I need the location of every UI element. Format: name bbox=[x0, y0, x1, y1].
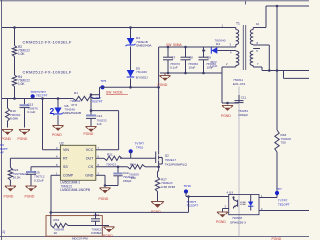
wire: opto pin 3 to ground bbox=[223, 209, 229, 213]
test point TP14 label bbox=[184, 184, 192, 188]
resistor R21 labels bbox=[106, 153, 117, 167]
svg-text:R24: R24 bbox=[130, 162, 136, 166]
svg-text:10uF: 10uF bbox=[189, 66, 196, 70]
sheet number text bottom left bbox=[1, 230, 6, 234]
resistor R21 bbox=[104, 156, 122, 160]
svg-text:0.068uF: 0.068uF bbox=[91, 231, 102, 235]
wire: output return branch bbox=[284, 71, 310, 79]
svg-text:TE1OPT: TE1OPT bbox=[278, 202, 290, 206]
wire: C22 to ground return bbox=[105, 185, 118, 187]
transformer T1 primary winding upper bbox=[236, 30, 239, 45]
resistor R24 bbox=[128, 165, 146, 169]
svg-text:1.0K: 1.0K bbox=[18, 52, 25, 56]
svg-text:CS: CS bbox=[88, 165, 94, 169]
net label XW_50MA red bbox=[166, 43, 183, 47]
resistor R4 part label CRM2512-FX-1003ELF bbox=[23, 69, 72, 74]
wire: VIN pin connection vertical bbox=[43, 99, 61, 150]
ground PGND under C7 bbox=[160, 73, 171, 81]
transformer T1 pin 10 stub bbox=[253, 28, 266, 30]
zener diode D4 bbox=[126, 38, 136, 46]
svg-text:2: 2 bbox=[50, 106, 55, 116]
transformer T1 pin 7 number bbox=[257, 62, 259, 66]
resistor R24 labels bbox=[129, 162, 140, 180]
node: junction aux rail / C7 bbox=[167, 46, 170, 49]
svg-text:C34: C34 bbox=[94, 213, 100, 217]
transformer T1 pin 3 stub bbox=[231, 45, 236, 48]
ground PGND right of C34 bbox=[104, 227, 115, 232]
resistor R19 bbox=[6, 99, 10, 128]
wire: SW node stub to C14 bbox=[90, 93, 100, 96]
wire: between R2 and R4 bbox=[14, 57, 16, 76]
optocoupler U3 coupling arrows bbox=[240, 201, 245, 205]
ground PGND under opto pin 3 bbox=[217, 212, 228, 217]
wire: VIN node horizontal bbox=[2, 98, 73, 100]
svg-text:LM5021MM-1/NOPB: LM5021MM-1/NOPB bbox=[60, 188, 90, 192]
svg-text:78G040: 78G040 bbox=[136, 70, 147, 74]
wire: primary return jog bbox=[221, 67, 239, 103]
capacitor C14 labels bbox=[97, 114, 107, 126]
sheet border bottom bbox=[0, 235, 309, 237]
highlight box around R31 C34 bbox=[46, 216, 102, 237]
svg-text:PGND: PGND bbox=[99, 197, 109, 201]
test point TP14 net text bbox=[187, 200, 199, 208]
test point TP10 labels bbox=[135, 142, 145, 150]
transistor Q2 labels bbox=[165, 154, 188, 167]
transformer T1 pin 8 number bbox=[257, 41, 259, 45]
svg-text:RT: RT bbox=[63, 157, 69, 161]
svg-text:C9: C9 bbox=[207, 55, 211, 59]
svg-text:10: 10 bbox=[256, 22, 260, 26]
capacitor C11 labels bbox=[238, 95, 248, 117]
svg-text:VIN: VIN bbox=[63, 148, 69, 152]
svg-text:EXL-474: EXL-474 bbox=[233, 82, 245, 86]
wire: aux rail (snubber top) bbox=[159, 46, 231, 48]
wire: SS pin to C25 bbox=[31, 166, 60, 168]
node: junction VIN node / D6 zener bbox=[57, 97, 60, 100]
wire: VCC pin wire bbox=[96, 149, 119, 151]
wire: opto feed vertical lower bbox=[276, 71, 278, 131]
capacitor C25 bbox=[26, 167, 36, 186]
svg-text:0.68 OHM: 0.68 OHM bbox=[161, 185, 176, 189]
wire: GND pin to ground bbox=[96, 175, 105, 185]
wire: switch node horizontal bbox=[100, 86, 159, 88]
net label SW_NODE red bbox=[106, 91, 128, 95]
capacitor C34 bbox=[91, 212, 100, 225]
resistor R19 labels bbox=[10, 109, 21, 120]
svg-text:D4: D4 bbox=[216, 42, 220, 46]
svg-text:SS: SS bbox=[63, 165, 68, 169]
test point net text TVTPT TE5TPT bbox=[92, 96, 103, 104]
ground PGND text under C25 bbox=[25, 194, 35, 198]
svg-text:R1: R1 bbox=[74, 91, 78, 95]
svg-text:TP16: TP16 bbox=[184, 184, 192, 188]
net label stub at left edge bbox=[0, 143, 8, 154]
U2 part labels bbox=[60, 181, 90, 192]
node: junction bottom rail / pin8 drop bbox=[268, 69, 271, 72]
transformer T1 pin 10 number bbox=[256, 22, 260, 26]
capacitor C7 bbox=[163, 47, 173, 73]
node: junction top rail / clamp diodes bbox=[129, 26, 132, 29]
capacitor C10 labels near pin 2 bbox=[210, 60, 218, 68]
svg-text:VCC: VCC bbox=[86, 148, 94, 152]
svg-text:PGND: PGND bbox=[103, 234, 113, 238]
wire: Y-cap line down to secondary side bbox=[238, 103, 240, 236]
transformer T1 pin 8 stub bbox=[253, 44, 269, 47]
sheet border left bbox=[1, 0, 3, 240]
wire: clamp chain vertical from top rail bbox=[130, 28, 132, 39]
svg-text:100: 100 bbox=[131, 176, 136, 180]
svg-text:OUT: OUT bbox=[86, 157, 94, 161]
resistor R18 labels bbox=[281, 133, 292, 144]
wire: R31 branch down bbox=[50, 212, 52, 225]
wire: between D4 and D5 bbox=[130, 47, 132, 71]
transformer T1 pin 1 number bbox=[222, 23, 224, 27]
svg-text:C8: C8 bbox=[189, 55, 193, 59]
svg-text:TP7: TP7 bbox=[276, 187, 282, 191]
svg-text:790508: 790508 bbox=[232, 216, 242, 220]
wire: secondary pin10 riser to output+ bbox=[266, 6, 309, 28]
transformer T1 pin 2 number bbox=[226, 62, 228, 66]
svg-text:R21: R21 bbox=[107, 153, 113, 157]
svg-text:PGND: PGND bbox=[221, 114, 231, 118]
wire: opto pin 1 to TP7 rail bbox=[259, 197, 277, 199]
wire: COMP pin down to feedback network bbox=[51, 175, 60, 212]
svg-text:T1: T1 bbox=[236, 22, 240, 26]
resistor R1 labels bbox=[70, 91, 81, 107]
transformer T1 pin 5 stub bbox=[253, 48, 260, 50]
resistor R1 (47.5) bbox=[73, 96, 93, 100]
transformer T1 core bbox=[243, 25, 245, 70]
ground PGND text on primary return bbox=[221, 114, 231, 118]
test point TP5 bbox=[100, 85, 104, 89]
svg-text:790421: 790421 bbox=[106, 162, 117, 166]
capacitor C8 labels bbox=[188, 55, 198, 69]
capacitor C8 bbox=[181, 47, 191, 73]
wire: R18 to TP7 bbox=[276, 152, 278, 198]
resistor R31 labels bbox=[54, 218, 65, 235]
svg-text:PGND: PGND bbox=[18, 137, 28, 141]
svg-text:SFH6156-3: SFH6156-3 bbox=[230, 221, 246, 225]
wire: D5 to switch-node wire bbox=[130, 79, 132, 88]
ground PGND under C13 bbox=[19, 130, 30, 135]
ground PGND under R23 bbox=[5, 186, 16, 191]
ground PGND text under C7 bbox=[158, 83, 168, 87]
node: junction C9 stem / D4 wire bbox=[202, 49, 205, 52]
node: junction output+ rail / opto feed bbox=[276, 5, 279, 8]
svg-text:COMP: COMP bbox=[63, 174, 74, 178]
svg-text:0.1uF: 0.1uF bbox=[170, 66, 178, 70]
capacitor C7 labels bbox=[170, 55, 180, 69]
resistor R23 labels bbox=[13, 168, 29, 179]
svg-text:TP10: TP10 bbox=[136, 145, 144, 149]
svg-text:4F: 4F bbox=[0, 150, 4, 154]
wire: R31 to C34/PGND rail bbox=[68, 225, 109, 227]
capacitor C22 bbox=[113, 167, 122, 186]
svg-text:CRM2512-FX-1003ELF: CRM2512-FX-1003ELF bbox=[23, 39, 72, 44]
svg-text:SW_NODE: SW_NODE bbox=[106, 91, 123, 95]
wire: cap bank bottom rail bbox=[160, 72, 221, 74]
ground PGND on primary return bbox=[222, 106, 233, 111]
resistor R4 labels bbox=[18, 75, 30, 86]
transformer T1 pin 4 number bbox=[230, 51, 232, 55]
wire: R24 to source node bbox=[145, 166, 159, 168]
sheet border zone tick bbox=[245, 1, 247, 5]
wire: feedback riser from COMP long wire bbox=[188, 197, 190, 213]
wire: HV input rail (top) bbox=[2, 27, 234, 29]
capacitor C22 labels bbox=[123, 171, 135, 183]
transformer T1 secondary winding lower bbox=[250, 51, 253, 66]
diode D4 aux rectifier labels bbox=[215, 39, 226, 47]
diode D5 labels bbox=[136, 67, 148, 80]
optocoupler U3 pin numbers bbox=[225, 191, 264, 211]
wire: pin8 drop bbox=[268, 45, 270, 71]
test point TP5 label bbox=[101, 79, 107, 83]
svg-text:CRM2512-FX-1003ELF: CRM2512-FX-1003ELF bbox=[23, 69, 72, 74]
ground PGND under GND pin bbox=[100, 188, 111, 193]
resistor R23 bbox=[8, 168, 12, 181]
svg-text:750: 750 bbox=[281, 141, 286, 145]
wire: R27 to ground bbox=[157, 192, 159, 202]
node: junction CS wire / C22 bbox=[117, 166, 120, 169]
node: junction bottom rail / opto feed bbox=[276, 69, 279, 72]
test point TP7 bbox=[275, 191, 279, 195]
op-amp/controller U2 LM5021 body bbox=[60, 145, 95, 180]
svg-text:PGND: PGND bbox=[4, 194, 14, 198]
svg-text:0.1uF: 0.1uF bbox=[28, 110, 36, 114]
ground PGND text under GND pin bbox=[99, 197, 109, 201]
node: junction bottom rail / C9 bbox=[202, 72, 205, 75]
node: junction VIN node / left rail bbox=[13, 97, 16, 100]
svg-text:TE5TPT: TE5TPT bbox=[92, 100, 103, 104]
node: junction switch node / D5 bbox=[129, 86, 132, 89]
svg-text:1000pF: 1000pF bbox=[238, 113, 248, 117]
svg-text:TK10P60WRLQ: TK10P60WRLQ bbox=[165, 162, 188, 166]
capacitor C9 labels bbox=[206, 55, 216, 69]
ground PGND under D6 bbox=[53, 126, 64, 131]
wire: R4 to VIN node bbox=[14, 87, 16, 99]
resistor R4 bbox=[12, 75, 16, 87]
resistor R18 bbox=[275, 130, 279, 152]
optocoupler U3 box bbox=[229, 195, 259, 215]
transformer T1 pin 2 stub bbox=[222, 66, 236, 68]
ground PGND text under R27 bbox=[151, 210, 161, 214]
ground PGND text under R23 bbox=[4, 194, 14, 198]
ground PGND under R19 bbox=[2, 130, 13, 135]
ground PGND text bottom right bbox=[272, 237, 282, 240]
svg-text:10.2K: 10.2K bbox=[13, 176, 22, 180]
optocoupler U3 LED bbox=[248, 195, 253, 211]
wire: opto pin 4 (collector) to TP14 bbox=[186, 196, 229, 198]
optocoupler U3 part labels bbox=[230, 216, 246, 225]
svg-text:U3: U3 bbox=[229, 190, 233, 194]
ground PGND text under C13 bbox=[18, 137, 28, 141]
node: junction VIN node / VIN pin wire bbox=[41, 97, 44, 100]
transformer T1 pin 1 stub bbox=[234, 28, 236, 30]
transformer T1 part labels bbox=[233, 78, 245, 86]
wire: COMP long wire bbox=[51, 211, 189, 213]
zener diode D6 bbox=[53, 99, 63, 126]
svg-text:0.22uF: 0.22uF bbox=[34, 179, 44, 183]
svg-text:C7: C7 bbox=[172, 55, 176, 59]
svg-text:9.09K: 9.09K bbox=[10, 117, 19, 121]
svg-text:PGND: PGND bbox=[158, 83, 168, 87]
resistor R2 bbox=[12, 46, 16, 57]
svg-text:BYG05J: BYG05J bbox=[136, 75, 148, 79]
ground PGND under C14 bbox=[86, 127, 97, 132]
node: junction primary return / PGND bbox=[226, 102, 229, 105]
node: junction TP14 wire / riser bbox=[187, 195, 190, 198]
svg-text:1nF: 1nF bbox=[97, 122, 102, 126]
transistor Q2 MOSFET bbox=[156, 150, 163, 164]
transformer T1 refdes bbox=[236, 22, 240, 26]
node: junction GND pin / C22 return bbox=[104, 184, 107, 187]
transformer T1 pin 7 stub bbox=[253, 66, 262, 68]
wire: secondary bottom rail bbox=[262, 67, 309, 71]
capacitor C13 bbox=[20, 99, 30, 128]
ground PGND text under opto pin 3 bbox=[216, 220, 226, 224]
wire: startup rail vertical segment bbox=[14, 28, 16, 46]
node: junction bottom rail / C8 bbox=[184, 72, 187, 75]
test point TP14 bbox=[184, 189, 188, 196]
ground PGND under R27 bbox=[151, 202, 164, 208]
svg-text:TE1TPT: TE1TPT bbox=[36, 94, 48, 98]
wire: VCC feed from switch node RC bbox=[90, 109, 119, 150]
capacitor C11 (Y-cap) bbox=[235, 95, 244, 103]
svg-text:C11: C11 bbox=[241, 95, 247, 99]
svg-text:R31: R31 bbox=[54, 218, 60, 222]
wire: R1 to TP5 riser bbox=[93, 87, 100, 98]
U2 refdes bbox=[60, 141, 64, 145]
zener diode D4 labels bbox=[136, 36, 152, 47]
transformer T1 secondary winding upper bbox=[250, 30, 253, 45]
test point TP6 bbox=[31, 94, 35, 98]
transformer T1 pin 3 number bbox=[230, 42, 232, 46]
optocoupler U3 refdes bbox=[229, 190, 233, 194]
U2 pin names right bbox=[85, 148, 94, 178]
U2 pin names left bbox=[63, 148, 74, 178]
svg-text:1.0uF: 1.0uF bbox=[210, 64, 218, 68]
wire: drain riser from snubber rail to Q2 bbox=[158, 47, 160, 150]
test point TP7 net text bbox=[278, 199, 290, 207]
test point TP10 bbox=[129, 149, 133, 158]
test point TP7 label bbox=[276, 187, 282, 191]
svg-text:U2: U2 bbox=[60, 141, 64, 145]
node: junction switch node / drain riser bbox=[157, 86, 160, 89]
diode D5 bbox=[127, 70, 135, 77]
svg-text:PGND: PGND bbox=[1, 137, 11, 141]
transformer T1 pin 5 number bbox=[256, 49, 258, 53]
footer drawing number text bbox=[72, 236, 88, 240]
wire: C11 top stub bbox=[238, 87, 240, 96]
svg-text:79ME17: 79ME17 bbox=[165, 158, 177, 162]
resistor R27 labels bbox=[161, 177, 176, 189]
svg-text:1Q: 1Q bbox=[1, 230, 6, 234]
node: junction bottom rail / C7 ground bbox=[167, 72, 170, 75]
svg-text:TP5: TP5 bbox=[101, 79, 107, 83]
svg-text:PGND: PGND bbox=[84, 132, 94, 136]
big blue wire label 2 bbox=[50, 106, 55, 116]
transformer T1 primary winding lower bbox=[236, 51, 239, 66]
svg-text:SMBJ540A: SMBJ540A bbox=[136, 44, 152, 48]
resistor R2 labels bbox=[18, 45, 30, 56]
resistor R27 bbox=[155, 177, 159, 192]
wire: R23 to ground bbox=[9, 180, 11, 186]
wire: R21 to gate bbox=[120, 157, 156, 159]
optocoupler U3 phototransistor bbox=[232, 196, 237, 208]
ground PGND text under R19 bbox=[1, 137, 11, 141]
resistor R2 part label CRM2512-FX-1003ELF bbox=[23, 39, 72, 44]
wire: source to R27 bbox=[158, 164, 159, 177]
wire: CS pin to R24 bbox=[96, 166, 128, 168]
resistor R31 bbox=[51, 223, 68, 227]
ground PGND text under C14 bbox=[84, 132, 94, 136]
capacitor C14 bbox=[86, 95, 96, 127]
svg-text:PGND: PGND bbox=[216, 220, 226, 224]
capacitor C34 labels bbox=[91, 213, 103, 235]
svg-text:47.5: 47.5 bbox=[71, 103, 77, 107]
U2 pin numbers bbox=[56, 146, 100, 176]
ground PGND under C25 bbox=[26, 186, 37, 191]
wire: RT pin to R23 bbox=[10, 158, 60, 167]
test point TP6 labels bbox=[31, 90, 48, 98]
svg-text:PGND: PGND bbox=[52, 133, 62, 137]
wire + diode D4 aux on pin4 wire bbox=[204, 47, 231, 53]
zener diode D6 labels bbox=[63, 104, 81, 115]
node: junction COMP wire / R31 branch bbox=[50, 211, 53, 214]
capacitor C9 bbox=[199, 47, 209, 73]
node: junction source node bbox=[157, 166, 160, 169]
node: junction top rail / startup resistors bbox=[13, 26, 16, 29]
svg-text:MMSZ5242B: MMSZ5242B bbox=[63, 111, 81, 115]
node: junction aux rail / C8 bbox=[184, 46, 187, 49]
svg-text:MDC07-PM: MDC07-PM bbox=[72, 236, 88, 240]
svg-text:GND: GND bbox=[85, 174, 93, 178]
sheet border top bbox=[0, 0, 309, 2]
capacitor C13 labels bbox=[28, 103, 39, 114]
transformer T1 pin 4 stub bbox=[231, 50, 236, 53]
svg-text:PGND: PGND bbox=[25, 194, 35, 198]
capacitor C25 labels bbox=[34, 171, 45, 183]
wire: OUT pin to R21 bbox=[96, 157, 104, 159]
ground PGND text under D6 bbox=[52, 133, 62, 137]
wire: opto feed vertical upper bbox=[276, 6, 278, 71]
wire: opto pin 2 to right edge bbox=[259, 210, 309, 212]
ground PGND text right of C34 bbox=[103, 234, 113, 238]
svg-text:1.0K: 1.0K bbox=[18, 82, 25, 86]
